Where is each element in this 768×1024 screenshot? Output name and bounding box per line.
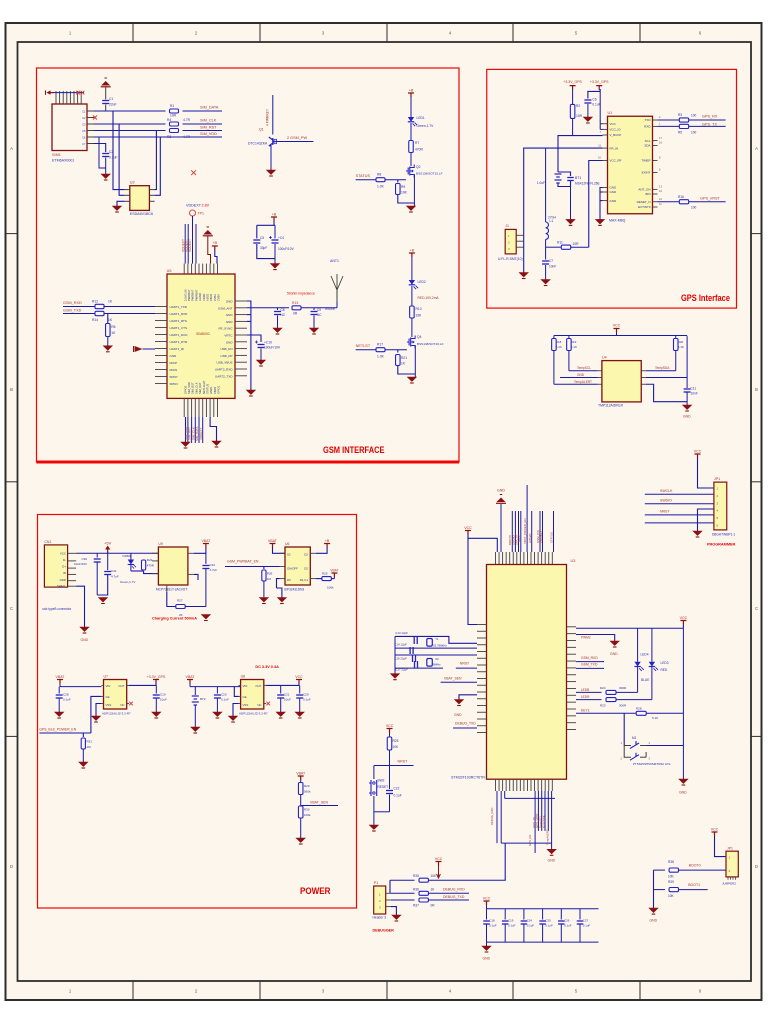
ground below Q2 — [407, 206, 416, 211]
capacitor C30 — [96, 553, 98, 557]
svg-text:C21: C21 — [284, 693, 290, 697]
svg-text:D: D — [10, 864, 13, 869]
wire SIM_VDD row — [94, 136, 222, 138]
resistor R26 pulldown — [263, 567, 265, 570]
svg-text:MCP73831T-2ACI/OT: MCP73831T-2ACI/OT — [156, 588, 187, 592]
svg-text:VCC: VCC — [680, 616, 688, 620]
capacitor C32 — [205, 553, 207, 564]
connector P1 debugger — [374, 886, 386, 914]
svg-text:VCC_IO: VCC_IO — [610, 128, 622, 132]
svg-text:STATUS: STATUS — [356, 174, 371, 178]
svg-text:Charging Current 500mA: Charging Current 500mA — [152, 617, 197, 621]
svg-text:R30: R30 — [304, 808, 310, 812]
svg-text:NC: NC — [257, 703, 261, 707]
wire tp1 cluster verticals — [192, 216, 194, 264]
svg-text:PWRBAT: PWRBAT — [187, 289, 191, 301]
capacitor C21 out — [280, 685, 282, 693]
row tick marks right — [751, 233, 763, 235]
svg-text:VRTC: VRTC — [224, 334, 233, 338]
svg-text:SIM_CLK: SIM_CLK — [194, 382, 198, 394]
svg-text:C18: C18 — [489, 919, 495, 923]
svg-text:L1: L1 — [550, 219, 554, 223]
capacitor C9 antenna NC — [313, 308, 315, 310]
svg-text:560k: 560k — [304, 790, 311, 794]
battery BT1 — [555, 173, 562, 175]
svg-text:GSM_RXD: GSM_RXD — [581, 656, 598, 660]
svg-text:RESET: RESET — [378, 785, 389, 789]
svg-text:GND: GND — [650, 919, 658, 923]
svg-text:10R: 10R — [170, 114, 177, 118]
wire RF_IN long — [524, 148, 603, 272]
svg-text:R11: R11 — [557, 241, 563, 245]
ground below divider — [296, 838, 305, 843]
svg-text:AGND: AGND — [198, 293, 202, 301]
ground below C20 — [213, 712, 222, 717]
svg-text:SWCLK: SWCLK — [660, 489, 673, 493]
svg-text:DEBUG_TXD: DEBUG_TXD — [443, 895, 465, 899]
svg-text:SIM1: SIM1 — [52, 153, 61, 157]
svg-text:C7: C7 — [549, 259, 553, 263]
svg-text:R38: R38 — [668, 860, 674, 864]
svg-text:U1: U1 — [608, 111, 613, 115]
resistor R27 prog — [167, 592, 176, 607]
svg-text:PROGRAMMER: PROGRAMMER — [707, 543, 736, 547]
resistor R24b status pull — [316, 578, 322, 580]
svg-text:SIM_CLK: SIM_CLK — [200, 119, 217, 123]
wire Q4 source to ground — [414, 346, 416, 378]
svg-text:DEBUG_RXD: DEBUG_RXD — [443, 888, 465, 892]
capacitor C11 — [686, 336, 688, 388]
svg-text:C16 22pF: C16 22pF — [394, 656, 407, 660]
svg-text:USB_VBUS: USB_VBUS — [216, 361, 232, 365]
svg-text:C22: C22 — [394, 787, 400, 791]
svg-text:ZVBA: ZVBA — [217, 294, 221, 301]
svg-text:10R: 10R — [573, 242, 580, 246]
no-connect X marks on header — [76, 91, 80, 95]
svg-text:TempSDA: TempSDA — [655, 366, 670, 370]
resistor R22 led — [131, 570, 144, 572]
svg-text:R8: R8 — [377, 173, 381, 177]
svg-text:GPS_nRST: GPS_nRST — [700, 197, 721, 201]
wire STATUS gate — [356, 179, 376, 181]
svg-text:TMP112AIDRLR: TMP112AIDRLR — [598, 404, 624, 408]
ground below R6 — [103, 346, 112, 351]
svg-text:usb typeB connector: usb typeB connector — [42, 607, 72, 611]
svg-text:+C4: +C4 — [278, 236, 284, 240]
svg-text:VBAT_SEN: VBAT_SEN — [444, 677, 462, 681]
wire VCC to JP1 pin1 — [698, 458, 714, 488]
svg-text:D2: D2 — [304, 553, 308, 557]
svg-text:ADP122AUJZ-3.3-R7: ADP122AUJZ-3.3-R7 — [102, 712, 131, 716]
ground below C7 — [541, 280, 550, 285]
svg-text:10nF: 10nF — [691, 392, 698, 396]
resistor R12 — [95, 304, 104, 308]
svg-text:GSM_TXD: GSM_TXD — [581, 663, 598, 667]
svg-text:LED2: LED2 — [418, 280, 426, 284]
svg-text:R25: R25 — [322, 572, 328, 576]
svg-text:PTS645SH50SMTR92 LFS: PTS645SH50SMTR92 LFS — [633, 762, 671, 766]
svg-text:VCC: VCC — [60, 552, 66, 556]
U5 right pin stubs — [235, 300, 247, 302]
wire VRTC to C10 — [247, 335, 261, 342]
svg-text:Q4: Q4 — [417, 335, 422, 339]
ground below BT2 — [191, 727, 200, 732]
svg-text:NRST: NRST — [398, 760, 409, 764]
capacitor C28 — [58, 687, 60, 694]
capacitor C1 — [105, 87, 107, 99]
wire GPS_TX — [658, 125, 680, 127]
svg-text:USB_DP: USB_DP — [220, 354, 232, 358]
svg-text:1M: 1M — [267, 577, 272, 581]
svg-text:0R: 0R — [431, 904, 436, 908]
resistor R24 led — [576, 691, 602, 693]
svg-text:VBAT_POWER_EN: VBAT_POWER_EN — [523, 519, 527, 545]
svg-text:TempALERT: TempALERT — [574, 380, 592, 384]
svg-text:R26: R26 — [267, 572, 273, 576]
ground below C4 — [271, 264, 280, 269]
svg-text:SWDIO: SWDIO — [660, 499, 672, 503]
svg-text:Y1: Y1 — [435, 637, 439, 641]
wire GND bus right of U5 — [247, 301, 251, 390]
svg-text:BT2: BT2 — [200, 697, 206, 701]
svg-text:GND: GND — [610, 190, 618, 194]
svg-text:33pF: 33pF — [260, 246, 267, 250]
svg-text:SPKP: SPKP — [170, 375, 178, 379]
svg-text:VIN: VIN — [243, 684, 248, 688]
svg-text:VCC_RF: VCC_RF — [610, 159, 622, 163]
wire U6 pin bottom gnd — [277, 579, 280, 588]
svg-text:TXD: TXD — [645, 118, 652, 122]
svg-text:GND: GND — [454, 713, 462, 717]
svg-text:DEBUGGER: DEBUGGER — [373, 929, 395, 933]
svg-text:JP1: JP1 — [714, 477, 720, 481]
svg-text:BIN: BIN — [645, 192, 650, 196]
svg-text:R25: R25 — [393, 739, 399, 743]
svg-text:GND: GND — [577, 373, 585, 377]
svg-text:VDDK: VDDK — [202, 293, 206, 301]
svg-text:10uF: 10uF — [284, 698, 291, 702]
svg-text:VBAT: VBAT — [201, 539, 211, 543]
wire esd vertical b — [119, 124, 125, 195]
resistor R19 — [568, 336, 570, 339]
wire GSM_TXD row — [63, 313, 95, 315]
svg-text:KEY1: KEY1 — [581, 709, 590, 713]
resistor R21 pulldown — [397, 350, 399, 353]
svg-text:GND1: GND1 — [209, 386, 213, 394]
svg-text:DC 3.3V 0.3A: DC 3.3V 0.3A — [255, 665, 279, 669]
svg-text:ETM6AX0001: ETM6AX0001 — [52, 159, 74, 163]
wire JP1 gnd branch — [698, 509, 714, 531]
svg-text:RESET_N: RESET_N — [637, 200, 651, 204]
svg-text:VSS: VSS — [243, 703, 249, 707]
svg-text:UART1_DCD: UART1_DCD — [170, 333, 189, 337]
ground below C10 — [257, 360, 266, 365]
ground below C21 — [276, 712, 285, 717]
svg-text:V_BCKP: V_BCKP — [610, 133, 622, 137]
svg-text:GND: GND — [81, 638, 89, 642]
svg-text:KBC0: KBC0 — [209, 293, 213, 301]
capacitor C19 out — [155, 685, 157, 693]
connector CN1 usb — [44, 545, 67, 587]
svg-text:100: 100 — [691, 131, 697, 135]
svg-text:STATUS: STATUS — [206, 384, 210, 394]
wire U8 CE tie — [234, 687, 238, 697]
SIM1 right pin stubs — [87, 110, 94, 112]
svg-text:+B: +B — [409, 89, 414, 93]
svg-text:DTC143ZKA: DTC143ZKA — [248, 142, 268, 146]
wire GPS_RX — [658, 119, 680, 121]
svg-text:R10: R10 — [416, 307, 422, 311]
wire U4 pin4 elbow — [646, 384, 687, 401]
svg-text:10K: 10K — [668, 875, 675, 879]
capacitor C6 gps — [588, 91, 600, 98]
svg-text:BOOT0: BOOT0 — [689, 864, 701, 868]
ground below C29 — [295, 712, 304, 717]
svg-text:SIM_RST: SIM_RST — [191, 382, 195, 394]
svg-text:NC: NC — [317, 313, 322, 317]
svg-text:5.1K: 5.1K — [571, 345, 577, 349]
svg-text:R31: R31 — [87, 740, 93, 744]
svg-text:+B: +B — [213, 241, 218, 245]
svg-text:C: C — [10, 606, 13, 611]
svg-text:U6: U6 — [285, 542, 290, 546]
svg-text:ZVBA: ZVBA — [213, 294, 217, 301]
svg-text:10K: 10K — [401, 191, 408, 195]
svg-text:D+: D+ — [62, 565, 66, 569]
U5 bottom pin stubs — [183, 398, 185, 417]
svg-text:OUT: OUT — [118, 684, 124, 688]
svg-text:5.1K: 5.1K — [652, 716, 658, 720]
wire SIM_DATA row — [94, 110, 166, 112]
svg-text:4.7R: 4.7R — [183, 118, 191, 122]
svg-text:1.0K: 1.0K — [377, 185, 385, 189]
wire U2 to ground — [117, 201, 125, 206]
led LED2 red — [409, 280, 415, 285]
wire SIM_RST to label — [183, 130, 223, 132]
resistor R1 — [170, 109, 179, 113]
svg-text:8MHz: 8MHz — [433, 663, 441, 667]
connector JP1 — [714, 482, 727, 530]
capacitor C20 u8 — [216, 687, 218, 694]
svg-text:R12: R12 — [92, 300, 98, 304]
svg-text:U9: U9 — [158, 542, 163, 546]
ground below C6 — [583, 117, 592, 122]
svg-text:GSM_RXD: GSM_RXD — [63, 301, 82, 305]
svg-text:+5V: +5V — [104, 540, 112, 545]
svg-text:R6: R6 — [111, 325, 115, 329]
svg-text:Q2: Q2 — [416, 165, 421, 169]
svg-text:R24: R24 — [600, 686, 606, 690]
wire VCC into mcu — [468, 535, 497, 553]
wire crystal gnd — [394, 636, 396, 673]
resistor R39 — [669, 888, 678, 892]
ground crystal block — [391, 674, 400, 679]
mcu left pin stubs — [477, 624, 487, 626]
svg-text:+B: +B — [325, 539, 330, 543]
resistor R38 — [669, 868, 678, 872]
wire nrst row — [374, 765, 414, 767]
connector JP2 boot — [726, 851, 738, 877]
capacitor C16 — [412, 655, 414, 662]
svg-text:TP1: TP1 — [198, 212, 204, 216]
svg-text:100k: 100k — [304, 813, 311, 817]
svg-text:C8: C8 — [281, 308, 285, 312]
svg-text:POWER: POWER — [300, 886, 331, 897]
svg-text:WPWR: WPWR — [528, 534, 532, 543]
svg-text:Q1: Q1 — [259, 128, 264, 132]
svg-text:S2: S2 — [287, 553, 291, 557]
svg-text:CN1: CN1 — [44, 540, 51, 544]
svg-text:RED,10V,2mA: RED,10V,2mA — [418, 296, 440, 300]
svg-text:1M: 1M — [87, 745, 92, 749]
svg-text:ANT_ON: ANT_ON — [638, 188, 650, 192]
resistor R4 — [170, 122, 179, 126]
svg-text:JUMPER2: JUMPER2 — [722, 882, 736, 886]
svg-text:J1: J1 — [505, 224, 509, 228]
svg-text:VSS: VSS — [106, 703, 112, 707]
crystal Y1 — [427, 639, 433, 647]
wire U1 GND pins — [600, 188, 603, 220]
svg-text:C3: C3 — [82, 122, 86, 126]
svg-text:C2: C2 — [82, 116, 86, 120]
svg-text:C5: C5 — [82, 129, 86, 133]
svg-text:STATUS: STATUS — [550, 532, 554, 543]
svg-text:R20: R20 — [678, 340, 684, 344]
svg-text:B: B — [755, 387, 758, 392]
svg-text:ADC0: ADC0 — [206, 293, 210, 301]
svg-text:100uF/10V: 100uF/10V — [278, 247, 294, 251]
crystal X2 — [427, 659, 433, 667]
X mark mid — [191, 170, 196, 175]
svg-text:GND: GND — [683, 415, 691, 419]
svg-text:GND: GND — [226, 320, 234, 324]
resistor R10 — [410, 306, 415, 318]
svg-text:10nF: 10nF — [549, 265, 556, 269]
svg-text:EXTINT0: EXTINT0 — [638, 205, 651, 209]
ground below U2 — [113, 206, 122, 211]
svg-text:R14: R14 — [92, 318, 98, 322]
svg-text:D-: D- — [63, 558, 66, 562]
svg-text:U7: U7 — [104, 675, 109, 679]
svg-text:GND: GND — [610, 186, 618, 190]
svg-text:DEBUG_TXD: DEBUG_TXD — [455, 722, 476, 726]
svg-text:SIM_DATA: SIM_DATA — [200, 106, 219, 110]
wire KEY1 row — [576, 712, 637, 714]
svg-text:GSM INTERFACE: GSM INTERFACE — [323, 445, 385, 456]
svg-text:BSS138/SOT23,LF: BSS138/SOT23,LF — [417, 342, 444, 346]
svg-text:GND: GND — [226, 340, 234, 344]
led LED4 blue — [637, 628, 639, 662]
svg-text:0.1uF: 0.1uF — [221, 698, 229, 702]
svg-text:C6: C6 — [592, 98, 596, 102]
svg-text:UART1_TXD: UART1_TXD — [170, 305, 188, 309]
resistor R30 divider bottom — [298, 806, 303, 818]
svg-text:R27: R27 — [177, 599, 183, 603]
svg-text:+B: +B — [410, 249, 415, 253]
svg-text:C29: C29 — [303, 693, 309, 697]
wire reset bottom — [374, 811, 390, 813]
svg-text:M1: M1 — [632, 736, 637, 740]
resistor R37 — [419, 898, 428, 902]
svg-text:MICP: MICP — [170, 361, 178, 365]
resistor R25 reset pullup — [387, 737, 392, 750]
capacitor C31 — [107, 553, 109, 570]
svg-text:VIN: VIN — [106, 684, 111, 688]
wire usb vcc rail — [76, 552, 158, 554]
svg-text:R2: R2 — [287, 578, 291, 582]
svg-text:C6: C6 — [82, 135, 86, 139]
svg-text:R3: R3 — [678, 113, 682, 117]
svg-text:+C10: +C10 — [264, 341, 272, 345]
resistor R35 — [419, 878, 428, 882]
resistor R23 led — [576, 699, 602, 701]
ground below U8 vss — [233, 704, 239, 717]
svg-text:VCC: VCC — [464, 526, 472, 530]
svg-text:100: 100 — [691, 206, 697, 210]
svg-text:R21: R21 — [401, 356, 407, 360]
wire boot gnd vertical — [653, 870, 655, 908]
svg-text:22uF: 22uF — [109, 103, 117, 107]
ESD ic U2 — [130, 186, 150, 211]
resistor R31 en pulldown — [82, 733, 84, 737]
svg-text:LEDR: LEDR — [581, 695, 590, 699]
ground below Q4 — [407, 377, 416, 382]
section box GPS Interface — [487, 69, 737, 308]
battery BT2 — [194, 687, 196, 695]
svg-text:ESDA6V1BC6: ESDA6V1BC6 — [130, 212, 153, 216]
svg-text:EXINT: EXINT — [642, 171, 651, 175]
svg-text:4.7uF: 4.7uF — [210, 568, 218, 572]
switch SW2 reset — [373, 766, 375, 780]
ground below mcu wires — [547, 849, 556, 854]
X mark U8 NC — [266, 702, 270, 706]
ground below C32 R27 — [201, 615, 210, 620]
resistor R3 — [170, 129, 179, 133]
ground boot resistors — [649, 908, 658, 913]
ground below BT1 — [566, 219, 575, 224]
svg-text:VCC: VCC — [711, 828, 719, 832]
ground below R31 — [79, 762, 88, 767]
wire Q1 base GSM_PW — [277, 141, 314, 143]
wire Q2 source to ground — [413, 175, 415, 207]
svg-text:10uF/10V: 10uF/10V — [74, 562, 87, 566]
wire esd vertical a — [113, 111, 125, 190]
capacitor C14 — [409, 647, 411, 654]
inductor L1 — [545, 148, 547, 222]
capacitor C13 — [413, 637, 415, 644]
svg-text:VBAT: VBAT — [186, 675, 196, 679]
svg-text:X2: X2 — [435, 657, 439, 661]
svg-text:VDDEXT: VDDEXT — [188, 239, 192, 252]
svg-text:GND: GND — [610, 199, 618, 203]
ground decoupling bank — [486, 942, 488, 946]
svg-text:SDA: SDA — [644, 144, 650, 148]
ic U6 load switch — [285, 547, 310, 585]
capacitor C8 antenna NC — [277, 308, 279, 310]
svg-text:C1: C1 — [109, 97, 113, 101]
svg-text:C19: C19 — [160, 693, 166, 697]
svg-text:MICN: MICN — [170, 368, 178, 372]
svg-text:0.1uF: 0.1uF — [394, 794, 402, 798]
svg-text:1.0uF: 1.0uF — [537, 181, 545, 185]
svg-text:RXD: RXD — [644, 125, 651, 129]
svg-text:BSS138/SOT23,LF: BSS138/SOT23,LF — [416, 172, 443, 176]
svg-text:VCC: VCC — [610, 122, 617, 126]
svg-text:TIMEP: TIMEP — [641, 159, 650, 163]
svg-text:0.1uF: 0.1uF — [489, 924, 497, 928]
svg-text:GND: GND — [497, 489, 505, 493]
svg-text:300R: 300R — [619, 704, 627, 708]
